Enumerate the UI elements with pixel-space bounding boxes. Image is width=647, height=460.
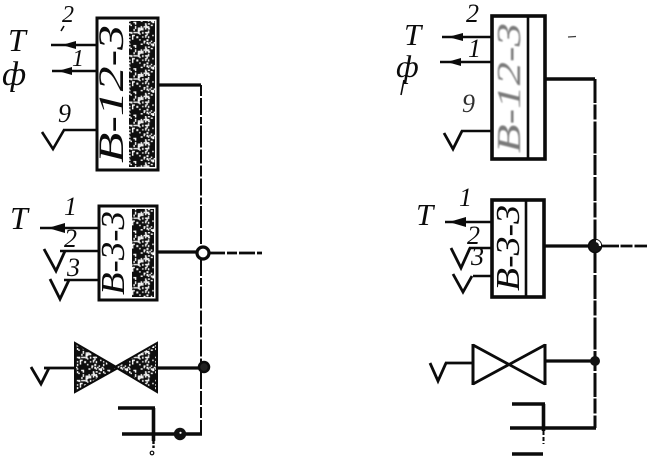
input wire 1 with arrow (block B1 pin 1) [52,67,97,75]
svg-text:1: 1 [64,192,77,221]
orifice symbol bottom bar / wire to bus (right) [510,426,596,430]
input wire 2 with arrow (block B3 pin 2) [442,33,492,41]
wire: node to right edge (right diagram tap) [601,245,647,248]
lower bar (right bottom) [512,452,543,455]
svg-text:3: 3 [66,253,80,282]
input wire 2 with check (block B2 pin 2) [44,249,99,271]
input wire 2 with check (block B4 pin 2) [451,248,492,268]
node: junction at valve V1 outlet [199,362,209,372]
wire: left vertical bus [200,85,202,434]
svg-text:В-3-3: В-3-3 [490,205,527,291]
input wire 3 with check (block B2 pin 3) [50,279,99,299]
orifice symbol (left bottom) top bar [118,406,155,410]
tail stroke under ф (right) [401,80,404,95]
svg-text:ф: ф [396,48,419,84]
orifice symbol (right bottom) top bar [512,402,545,406]
block B4 "В-3-3" (right diagram, middle) [490,200,544,297]
input wire 9 with check (block B1 pin 9) [42,130,97,149]
svg-text:2: 2 [62,2,74,28]
svg-text:В-12-3: В-12-3 [491,23,528,153]
svg-text:ф: ф [2,56,26,93]
speck below stem [150,451,154,455]
wire: node to right (left diagram tap) [209,252,262,255]
svg-text:В-3-3: В-3-3 [95,211,132,295]
svg-text:9: 9 [58,99,71,128]
wire: valve V1 outlet to bus [157,366,199,369]
wire: B4 output to node (right) [544,244,588,247]
valve V1 (left, filled bowtie) [75,343,157,392]
node: open circle junction (right middle) [589,240,602,253]
svg-text:1: 1 [459,183,472,212]
node: filled junction on bottom bar (left) [174,428,186,440]
wire: valve V2 inlet with check [430,363,473,381]
svg-text:Т: Т [10,200,30,236]
wire: valve V1 inlet with check [31,367,76,384]
svg-text:9: 9 [462,89,475,118]
valve V2 (right, outline bowtie) [473,344,545,385]
input wire 2 with arrow (block B1 pin 2) [51,41,97,49]
input wire 1 with arrow (block B4 pin 1) [445,217,492,227]
wire: right vertical bus [594,79,597,428]
input wire 3 with check (block B4 pin 3) [453,274,492,292]
orifice symbol bottom bar / wire to bus [122,432,202,436]
svg-text:3: 3 [470,242,484,271]
speck near B3 [568,36,576,39]
node: filled junction at valve V2 outlet [590,356,600,366]
svg-text:Т: Т [416,197,436,232]
stem continuation below bar (right) [543,431,545,444]
leader tick under label 2 [61,26,64,31]
svg-text:1: 1 [468,34,481,63]
input wire 1 with arrow (block B3 pin 1) [440,58,492,66]
wire: valve V2 outlet to bus [545,359,591,362]
input wire 9 with check (block B3 pin 9) [444,131,492,149]
svg-text:Т: Т [404,17,424,52]
node: open circle junction (left middle) [197,247,209,259]
orifice symbol vertical stem [152,408,156,441]
block B2 "В-3-3" (left diagram, middle) [95,206,157,300]
wire: B1 output to vertical bus (left) [158,83,201,86]
svg-text:2: 2 [466,0,479,28]
input wire 1 with arrow (block B2 pin 1) [40,223,99,233]
block B1 "В-12-3" (left diagram, top) [91,18,158,170]
svg-text:2: 2 [64,224,77,253]
block B3 "В-12-3" (right diagram, top) [491,16,545,159]
wire: B2 output to node (left) [157,250,196,253]
svg-text:Т: Т [8,22,28,58]
orifice symbol vertical stem (right) [542,404,546,431]
wire: B3 output to right bus [545,77,595,80]
svg-text:1: 1 [72,46,84,72]
